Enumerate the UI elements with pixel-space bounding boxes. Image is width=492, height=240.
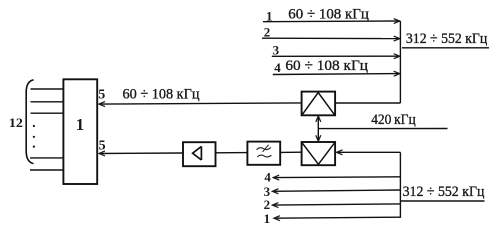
svg-text:1: 1: [76, 115, 85, 134]
group line 3 (bottom fan): [272, 190, 400, 191]
svg-text:2: 2: [264, 197, 271, 212]
svg-text:2: 2: [264, 24, 271, 39]
svg-text:3: 3: [273, 42, 280, 57]
filter symbol: tilde with slash and tilde: [257, 145, 272, 157]
svg-text:5: 5: [98, 88, 105, 103]
group line 4 (top fan): [273, 73, 400, 76]
top bus vertical wire: [399, 21, 401, 103]
bottom bus vertical wire: [399, 152, 401, 218]
input channel line e: [30, 169, 63, 171]
wire: 60-108 kHz line from top mixer to block 1: [99, 103, 302, 104]
bottom mixer V symbol: [302, 143, 334, 164]
svg-text:4: 4: [264, 170, 271, 185]
wire: filter to amplifier: [216, 152, 248, 154]
svg-text:1: 1: [266, 9, 273, 24]
wire: bottom mixer to filter: [280, 151, 301, 153]
svg-text:60 ÷ 108 кГц: 60 ÷ 108 кГц: [288, 7, 369, 23]
svg-text:420 кГц: 420 кГц: [371, 112, 416, 128]
svg-text:312 ÷ 552 кГц: 312 ÷ 552 кГц: [406, 31, 487, 47]
bottom mixer (demodulator) box: [302, 142, 336, 165]
input channel line c: [31, 112, 64, 114]
wire: top mixer output to bus: [335, 102, 400, 104]
svg-text:5: 5: [99, 138, 106, 153]
input underline wire (bottom 312-552): [401, 200, 485, 202]
group line 1 (top fan): [263, 20, 400, 23]
svg-text:1: 1: [264, 211, 271, 226]
svg-text:60 ÷ 108 кГц: 60 ÷ 108 кГц: [123, 87, 200, 103]
block 1 (individual equipment, 12 channels): [63, 79, 97, 184]
wire: 420 kHz horizontal line: [318, 128, 447, 130]
bandpass filter box: [247, 142, 280, 165]
top mixer (modulator) box: [302, 92, 336, 116]
group line 1 (bottom fan): [274, 217, 400, 218]
amplifier box: [183, 142, 216, 166]
brace grouping 12 inputs: [26, 80, 33, 164]
wire: bus to bottom mixer: [337, 151, 401, 153]
wire: amplifier to block 1: [99, 152, 183, 155]
svg-text:12: 12: [9, 115, 23, 130]
svg-text:60 ÷ 108 кГц: 60 ÷ 108 кГц: [285, 58, 368, 74]
top mixer inverted-V symbol: [302, 93, 334, 115]
group line 2 (bottom fan): [272, 204, 400, 205]
input channel line b: [31, 101, 64, 103]
svg-text:312 ÷ 552 кГц: 312 ÷ 552 кГц: [403, 184, 485, 200]
svg-text:4: 4: [274, 60, 281, 75]
carrier feed vertical wire with two arrowheads: [317, 116, 319, 141]
group line 2 (top fan): [262, 37, 400, 39]
output underline wire (top 312-552): [402, 47, 489, 49]
group line 4 (bottom fan): [273, 176, 400, 179]
amplifier triangle symbol: [193, 146, 202, 160]
ellipsis dots between channels: [33, 125, 35, 148]
input channel line a: [31, 88, 64, 90]
group line 3 (top fan): [272, 55, 400, 57]
input channel line d: [30, 157, 63, 159]
